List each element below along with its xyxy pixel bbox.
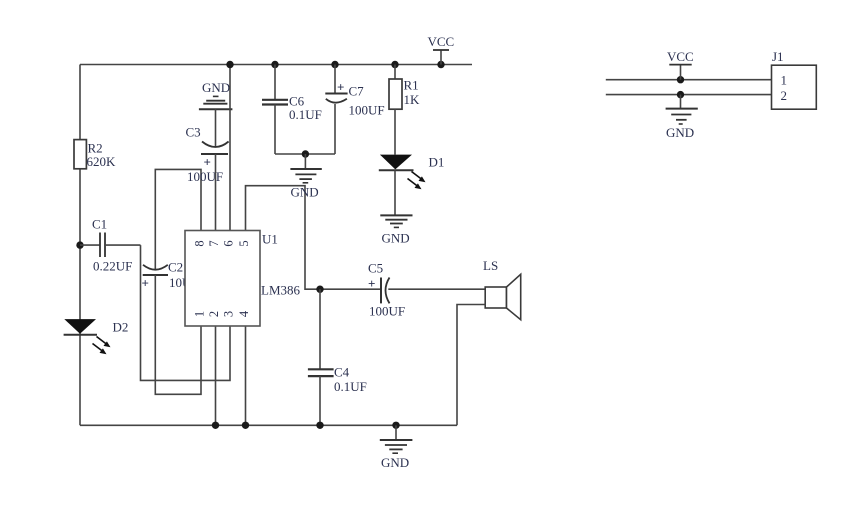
svg-text:VCC: VCC xyxy=(667,49,694,64)
resistor R1 1K xyxy=(389,65,420,110)
ground GND below D1 xyxy=(380,170,412,245)
svg-text:2: 2 xyxy=(781,88,788,103)
power VCC right xyxy=(667,49,694,83)
capacitor C2 10UF xyxy=(142,260,199,291)
pin 4 xyxy=(237,310,251,317)
svg-text:R1: R1 xyxy=(404,78,419,93)
svg-text:C2: C2 xyxy=(168,260,183,275)
svg-text:620K: 620K xyxy=(87,154,117,169)
ground GND bottom rail xyxy=(380,422,413,470)
svg-text:8: 8 xyxy=(193,240,207,246)
wire pin5 output xyxy=(246,186,382,290)
node output junction xyxy=(316,286,323,293)
svg-text:4: 4 xyxy=(237,310,251,317)
svg-text:1K: 1K xyxy=(404,92,421,107)
svg-text:0.1UF: 0.1UF xyxy=(334,379,367,394)
node junction at C1 tap xyxy=(76,241,83,248)
svg-text:GND: GND xyxy=(291,185,319,200)
svg-text:D1: D1 xyxy=(429,155,445,170)
pin 7 xyxy=(207,240,221,246)
LED D2 xyxy=(64,319,129,354)
capacitor C1 0.22UF xyxy=(80,217,141,274)
pin 5 xyxy=(237,240,251,246)
wire J1 pin1 xyxy=(606,79,772,81)
wire pin7 stub xyxy=(215,154,217,231)
svg-text:J1: J1 xyxy=(772,49,784,64)
wire C1 to pin3 input xyxy=(141,245,231,380)
capacitor C3 100UF xyxy=(186,109,229,184)
svg-text:GND: GND xyxy=(202,80,230,95)
svg-text:LM386: LM386 xyxy=(261,283,301,298)
svg-text:LS: LS xyxy=(483,258,498,273)
pin 8 xyxy=(193,240,207,246)
svg-text:3: 3 xyxy=(222,311,236,317)
power VCC left xyxy=(428,34,455,68)
pin 3 xyxy=(222,311,236,317)
ground GND above C3 xyxy=(199,80,233,109)
svg-text:C7: C7 xyxy=(349,84,365,99)
svg-text:C3: C3 xyxy=(186,125,201,140)
capacitor C7 100UF xyxy=(325,65,384,155)
ground GND right xyxy=(666,91,698,140)
connector J1 xyxy=(772,49,817,109)
svg-text:0.1UF: 0.1UF xyxy=(289,107,322,122)
wire C2 bottom to pin1 xyxy=(155,275,201,394)
wire speaker return xyxy=(457,305,486,426)
wire J1 pin2 xyxy=(606,94,772,96)
svg-text:C5: C5 xyxy=(368,261,383,276)
svg-text:5: 5 xyxy=(237,240,251,246)
svg-text:0.22UF: 0.22UF xyxy=(93,259,132,274)
node junction C7 top xyxy=(331,61,338,68)
svg-text:7: 7 xyxy=(207,240,221,246)
svg-text:GND: GND xyxy=(381,455,409,470)
svg-text:100UF: 100UF xyxy=(369,304,405,319)
svg-text:6: 6 xyxy=(222,240,236,246)
svg-text:D2: D2 xyxy=(113,320,129,335)
svg-text:VCC: VCC xyxy=(428,34,455,49)
wire top rail VCC xyxy=(80,64,472,66)
svg-text:100UF: 100UF xyxy=(187,169,223,184)
resistor R2 xyxy=(74,140,116,169)
svg-text:100UF: 100UF xyxy=(349,103,385,118)
wire bottom ground rail xyxy=(80,424,457,426)
svg-text:2: 2 xyxy=(207,311,221,317)
speaker LS xyxy=(483,258,521,320)
svg-text:1: 1 xyxy=(781,73,788,88)
svg-text:GND: GND xyxy=(666,125,694,140)
capacitor C5 100UF xyxy=(368,261,486,319)
pin 1 xyxy=(193,311,207,317)
wire C6 C7 ground link xyxy=(275,153,335,155)
svg-text:U1: U1 xyxy=(262,232,278,247)
svg-text:C1: C1 xyxy=(92,217,107,232)
LED D1 xyxy=(379,109,445,189)
svg-text:+: + xyxy=(368,276,375,291)
wire pin4 to ground rail xyxy=(242,326,249,429)
svg-text:+: + xyxy=(142,276,149,291)
svg-text:1: 1 xyxy=(193,311,207,317)
svg-text:GND: GND xyxy=(382,231,410,246)
svg-text:+: + xyxy=(337,80,344,95)
pin 6 xyxy=(222,240,236,246)
capacitor C6 0.1UF xyxy=(262,65,322,155)
capacitor C4 0.1UF xyxy=(308,289,367,429)
svg-text:+: + xyxy=(204,155,211,170)
pin 2 xyxy=(207,311,221,317)
node junction C6 top xyxy=(271,61,278,68)
op-amp U1 LM386 xyxy=(185,231,301,327)
node junction R1 top xyxy=(391,61,398,68)
ground GND for C6 C7 xyxy=(290,150,321,199)
wire pin2 to ground rail xyxy=(212,326,219,429)
svg-text:C4: C4 xyxy=(334,365,350,380)
wire pin8 gain loop top xyxy=(155,169,201,269)
wire pin6 to VCC rail xyxy=(226,61,233,231)
wire left rail xyxy=(79,65,81,426)
